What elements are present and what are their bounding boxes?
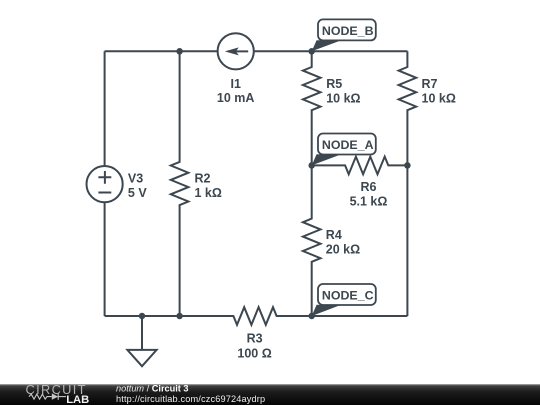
- svg-text:10 kΩ: 10 kΩ: [326, 91, 360, 105]
- svg-text:V3: V3: [128, 171, 143, 185]
- svg-text:100 Ω: 100 Ω: [237, 347, 271, 361]
- svg-text:5 V: 5 V: [128, 186, 147, 200]
- svg-text:10 mA: 10 mA: [217, 91, 255, 105]
- svg-text:R7: R7: [422, 77, 438, 91]
- svg-text:LAB: LAB: [66, 394, 89, 405]
- svg-text:I1: I1: [230, 77, 240, 91]
- svg-text:NODE_C: NODE_C: [322, 289, 374, 303]
- svg-text:R4: R4: [326, 228, 342, 242]
- svg-text:5.1 kΩ: 5.1 kΩ: [350, 195, 388, 209]
- svg-text:R6: R6: [361, 180, 377, 194]
- svg-text:20 kΩ: 20 kΩ: [326, 242, 360, 256]
- svg-text:R5: R5: [326, 77, 342, 91]
- svg-text:http://circuitlab.com/czc69724: http://circuitlab.com/czc69724aydrp: [116, 394, 265, 404]
- svg-text:1 kΩ: 1 kΩ: [195, 186, 222, 200]
- svg-text:R3: R3: [247, 332, 263, 346]
- svg-text:NODE_A: NODE_A: [322, 138, 374, 152]
- svg-text:NODE_B: NODE_B: [322, 24, 374, 38]
- svg-text:nottum / Circuit 3: nottum / Circuit 3: [116, 384, 189, 394]
- svg-text:R2: R2: [195, 171, 211, 185]
- svg-text:10 kΩ: 10 kΩ: [422, 91, 456, 105]
